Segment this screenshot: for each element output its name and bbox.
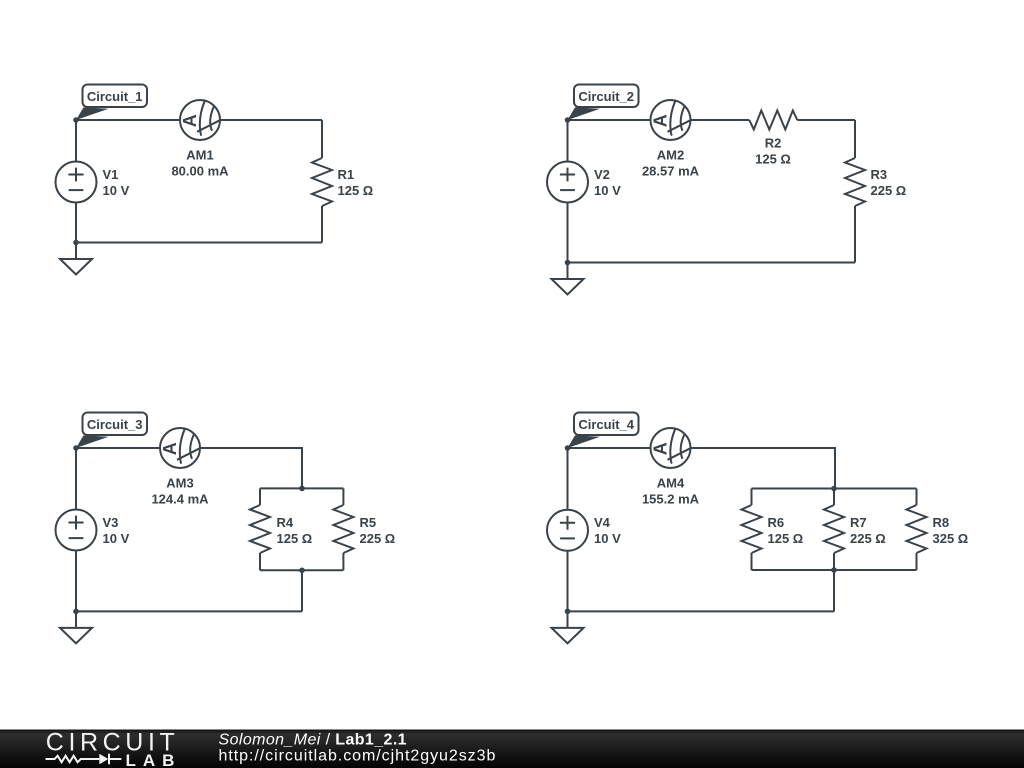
svg-text:10 V: 10 V — [594, 531, 621, 546]
svg-text:V1: V1 — [103, 167, 119, 182]
svg-text:R6: R6 — [768, 515, 785, 530]
svg-text:10 V: 10 V — [594, 183, 621, 198]
svg-text:225 Ω: 225 Ω — [850, 531, 886, 546]
svg-text:325 Ω: 325 Ω — [933, 531, 969, 546]
svg-text:225 Ω: 225 Ω — [360, 531, 396, 546]
svg-text:AM2: AM2 — [657, 148, 684, 163]
svg-text:A: A — [651, 442, 671, 455]
svg-text:V4: V4 — [594, 515, 611, 530]
svg-text:R5: R5 — [360, 515, 377, 530]
svg-text:124.4 mA: 124.4 mA — [151, 492, 209, 507]
svg-text:R7: R7 — [850, 515, 867, 530]
svg-text:125 Ω: 125 Ω — [338, 183, 374, 198]
svg-text:R8: R8 — [933, 515, 950, 530]
svg-text:AM4: AM4 — [657, 476, 685, 491]
svg-text:10 V: 10 V — [103, 531, 130, 546]
svg-text:155.2 mA: 155.2 mA — [642, 492, 700, 507]
svg-text:10 V: 10 V — [103, 183, 130, 198]
svg-text:AM3: AM3 — [166, 476, 193, 491]
svg-text:Circuit_1: Circuit_1 — [87, 89, 143, 104]
svg-text:A: A — [160, 442, 180, 455]
svg-text:Circuit_4: Circuit_4 — [578, 417, 634, 432]
svg-text:28.57 mA: 28.57 mA — [642, 164, 700, 179]
svg-text:V2: V2 — [594, 167, 610, 182]
svg-text:Circuit_3: Circuit_3 — [87, 417, 143, 432]
svg-text:A: A — [651, 114, 671, 127]
svg-text:AM1: AM1 — [186, 148, 213, 163]
svg-text:R3: R3 — [871, 167, 888, 182]
svg-text:80.00 mA: 80.00 mA — [171, 164, 229, 179]
svg-text:125 Ω: 125 Ω — [755, 152, 791, 167]
svg-text:225 Ω: 225 Ω — [871, 183, 907, 198]
svg-text:Circuit_2: Circuit_2 — [578, 89, 634, 104]
svg-text:R4: R4 — [277, 515, 294, 530]
svg-text:V3: V3 — [103, 515, 119, 530]
svg-text:LAB: LAB — [126, 751, 182, 768]
svg-text:125 Ω: 125 Ω — [277, 531, 313, 546]
svg-text:http://circuitlab.com/cjht2gyu: http://circuitlab.com/cjht2gyu2sz3b — [219, 748, 497, 765]
svg-text:Solomon_Mei / Lab1_2.1: Solomon_Mei / Lab1_2.1 — [219, 732, 407, 749]
svg-text:R2: R2 — [765, 136, 782, 151]
svg-text:A: A — [180, 114, 200, 127]
svg-text:R1: R1 — [338, 167, 355, 182]
svg-text:125 Ω: 125 Ω — [768, 531, 804, 546]
